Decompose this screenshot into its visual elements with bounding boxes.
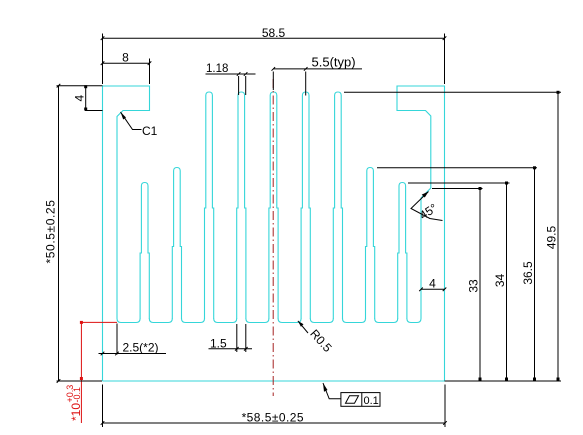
- svg-text:8: 8: [122, 51, 129, 65]
- center line (dash-dot): [272, 79, 274, 396]
- flatness parallelogram symbol: [346, 396, 359, 403]
- dim 33: dimension line: [479, 189, 481, 380]
- svg-text:C1: C1: [142, 124, 158, 138]
- dim 8: oblique ticks: [101, 61, 105, 65]
- dim 1.18: dimension line: [206, 73, 256, 75]
- svg-text:49.5: 49.5: [545, 225, 559, 249]
- slot 5 bottom: [278, 319, 301, 323]
- arrowhead C1: [121, 112, 127, 120]
- leader flatness: [323, 383, 341, 399]
- dim *58.5±0.25 bottom: oblique ticks: [101, 421, 105, 425]
- dim 36.5: top witness: [377, 167, 537, 169]
- fin 9 (34mm): [398, 183, 407, 320]
- svg-text:*58.5±0.25: *58.5±0.25: [242, 410, 304, 424]
- dim 49.5 dots: [557, 91, 560, 94]
- dim 1.18: oblique ticks: [237, 72, 241, 76]
- profile base bottom edge: [103, 380, 445, 382]
- svg-text:36.5: 36.5: [521, 261, 535, 285]
- dim 33 dots: [479, 187, 482, 190]
- dim 4 right: oblique ticks: [419, 288, 423, 292]
- profile outline right: hook lip, 45-deg chamfer face, right wall: [397, 86, 445, 381]
- dim 58.5 top: dimension line: [103, 37, 445, 39]
- fin 1 (34mm): [140, 183, 149, 320]
- svg-text:*10: *10: [69, 403, 83, 421]
- dim 36.5 dots: [533, 166, 536, 169]
- profile outline left: tab, chamfer C1 face, left wall: [103, 86, 150, 381]
- dim 2.5(*2): oblique ticks: [101, 352, 105, 356]
- dim 5.5(typ): dimension line: [273, 68, 362, 70]
- svg-text:+0.3: +0.3: [65, 385, 75, 403]
- fin 6 (49.5mm tall): [301, 92, 310, 319]
- svg-text:1.18: 1.18: [206, 63, 228, 75]
- slot 2 bottom: [182, 319, 205, 323]
- dim 34 dots: [505, 182, 508, 185]
- fin 2 (36.5mm): [172, 168, 181, 320]
- svg-text:33: 33: [467, 279, 481, 293]
- dim 4 left: bottom witness: [85, 110, 103, 112]
- leader 45deg: arrow line to chamfer: [411, 192, 443, 221]
- arrowhead flatness: [323, 383, 328, 392]
- svg-text:5.5(typ): 5.5(typ): [312, 55, 356, 70]
- dim 36.5: dimension line: [534, 168, 536, 380]
- slot 4 bottom: [246, 319, 269, 323]
- slot 3 bottom: [214, 319, 237, 323]
- dim *58.5±0.25 bottom: dimension line: [103, 422, 446, 424]
- leader C1: [121, 112, 142, 130]
- svg-text:58.5: 58.5: [262, 26, 286, 40]
- square dot terminators (black): [84, 85, 559, 380]
- flatness feature control frame: [341, 393, 380, 407]
- svg-text:4: 4: [73, 94, 87, 101]
- dim 2.5(*2): dimension line: [99, 353, 167, 355]
- dim 4 left: dots: [84, 85, 87, 88]
- dim *50.5±0.25: bottom witness: [57, 380, 103, 382]
- flatness frame box: [341, 393, 380, 407]
- svg-text:1.5: 1.5: [210, 337, 227, 351]
- dim *50.5±0.25: oblique ticks: [57, 84, 61, 88]
- dim 1.18: witness lines: [238, 76, 240, 95]
- svg-text:34: 34: [493, 274, 507, 288]
- flatness frame divider: [361, 393, 363, 407]
- dim 33: top witness: [432, 188, 483, 190]
- red dimension dot top: [80, 321, 83, 324]
- slot 7 bottom: [343, 319, 366, 323]
- slot 8 bottom: [375, 319, 398, 323]
- red dimension *10 +0.3/-0.1 : witness line at base top: [81, 321, 117, 323]
- dim 49.5: top witness: [344, 91, 561, 93]
- fin 7 (49.5mm tall): [333, 92, 342, 319]
- red dimension text *10 +0.3/-0.1 (rotated): [65, 385, 83, 421]
- red dimension dot bottom: [80, 377, 83, 380]
- svg-text:4: 4: [429, 277, 436, 291]
- leader R0.5: [298, 321, 308, 333]
- dim 1.5: witness lines: [236, 324, 238, 352]
- dim 8: witness line right: [149, 59, 151, 85]
- dim *58.5±0.25 bottom: witness lines: [102, 385, 104, 428]
- fin 8 (36.5mm): [366, 168, 375, 320]
- fin 4 (49.5mm tall): [237, 92, 246, 319]
- dim 4 right: dimension line: [421, 288, 445, 290]
- dim 34: dimension line: [506, 183, 508, 380]
- red dimension line vertical: [80, 322, 82, 423]
- fin 3 (49.5mm tall): [205, 92, 214, 319]
- dim 5.5(typ): witness lines: [272, 72, 274, 91]
- dim *50.5±0.25 left: dimension line: [58, 86, 60, 381]
- dim 2.5(*2): witness line: [116, 324, 118, 355]
- dim 4 left: dimension line: [85, 86, 87, 111]
- dim 58.5 top: witness lines: [102, 34, 104, 85]
- arrowhead R0.5: [298, 321, 304, 327]
- dim 5.5(typ): oblique ticks: [272, 67, 276, 71]
- arrowhead 45deg: [422, 192, 429, 198]
- right dims: bottom witness: [445, 380, 562, 382]
- slot 1 bottom: [149, 319, 172, 323]
- fin 5 (center, 49.5mm tall): [269, 92, 278, 319]
- dim 4 left: top witness (shared, from 50.5 dim): [57, 85, 103, 87]
- dim 58.5 top: oblique ticks: [101, 36, 105, 40]
- svg-text:2.5(*2): 2.5(*2): [123, 341, 159, 355]
- dim 34: top witness: [408, 182, 510, 184]
- svg-text:*50.5±0.25: *50.5±0.25: [44, 200, 58, 264]
- dim 49.5: dimension line: [557, 92, 559, 379]
- dim 8: dimension line: [103, 62, 150, 64]
- slot 0 bottom: [117, 319, 140, 323]
- dim 1.5: dimension line: [209, 348, 253, 350]
- svg-text:0.1: 0.1: [364, 395, 379, 407]
- slot 6 bottom: [310, 319, 333, 323]
- slot 9 bottom: [407, 319, 421, 323]
- dim 1.5: oblique ticks: [235, 347, 239, 351]
